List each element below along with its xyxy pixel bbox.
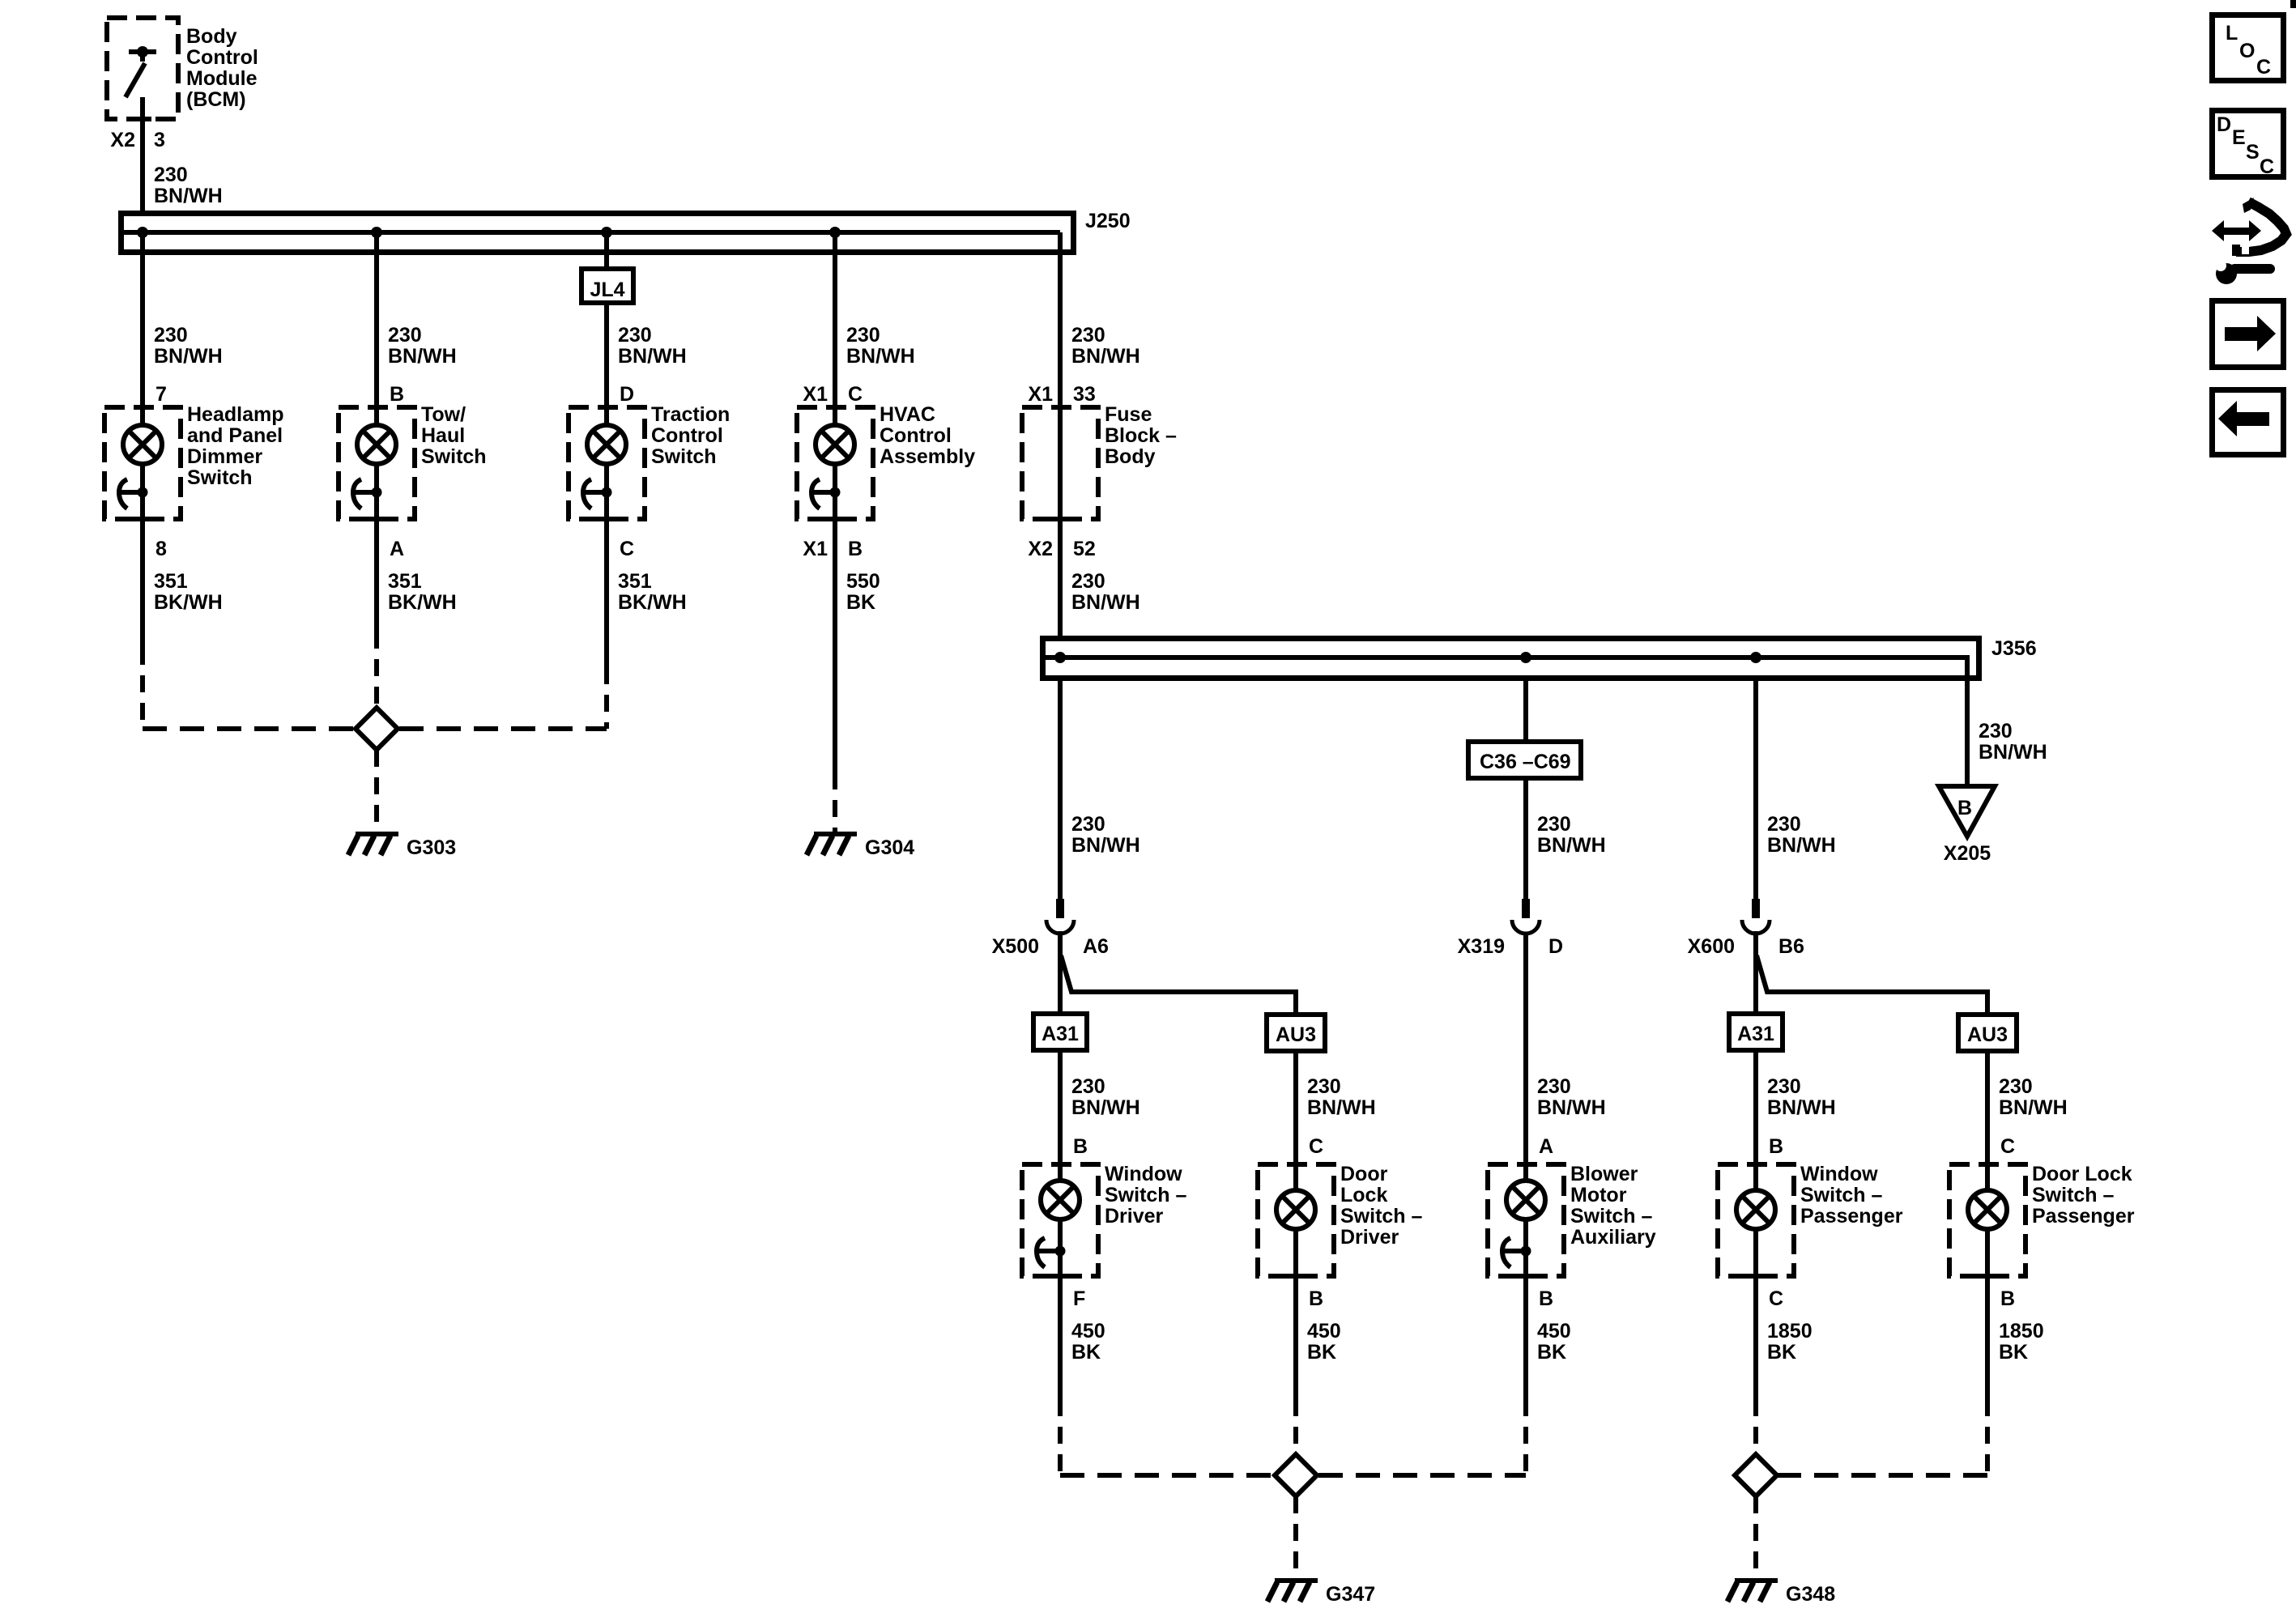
switch contact inside tow/haul switch bbox=[352, 479, 382, 509]
svg-text:B: B bbox=[1769, 1135, 1783, 1158]
pin X2 3 of BCM bbox=[110, 129, 165, 151]
svg-text:BN/WH: BN/WH bbox=[1999, 1096, 2068, 1119]
switch contact inside HVAC control assembly bbox=[811, 479, 841, 509]
svg-text:X600: X600 bbox=[1688, 935, 1735, 958]
svg-text:BN/WH: BN/WH bbox=[1307, 1096, 1376, 1119]
indicator lamp inside tow/haul switch bbox=[357, 407, 396, 519]
switch contact inside S1 headlamp dimmer bbox=[118, 479, 148, 509]
splice diamond above G347 bbox=[1275, 1454, 1317, 1496]
pin X1 C of HVAC control assembly bbox=[803, 383, 863, 406]
svg-text:A: A bbox=[1539, 1135, 1553, 1158]
dashed wire joining passenger switches to G348 diamond bbox=[1777, 1473, 1987, 1478]
switch contact inside traction control switch bbox=[582, 479, 612, 509]
pin A of tow/haul switch bbox=[390, 538, 404, 560]
svg-text:S: S bbox=[2246, 141, 2260, 164]
pin 7 of S1 headlamp dimmer bbox=[155, 383, 167, 406]
svg-text:230: 230 bbox=[1537, 1075, 1571, 1098]
svg-text:BN/WH: BN/WH bbox=[1071, 1096, 1140, 1119]
connector code AU3 box (passenger) bbox=[1958, 1015, 2017, 1051]
svg-text:230: 230 bbox=[1307, 1075, 1341, 1098]
svg-text:Blower: Blower bbox=[1570, 1163, 1638, 1185]
switch contact inside window switch driver bbox=[1036, 1238, 1066, 1267]
pin B of window switch passenger bbox=[1769, 1135, 1783, 1158]
wire from X500 to connector code A31 bbox=[1058, 931, 1063, 1014]
pin C of traction control switch bbox=[620, 538, 634, 560]
svg-text:33: 33 bbox=[1073, 383, 1096, 406]
component window switch passenger dashed box bbox=[1718, 1164, 1794, 1276]
svg-text:C: C bbox=[2260, 155, 2274, 178]
dashed wire from diamond to ground G303 bbox=[374, 750, 379, 834]
svg-text:Tow/: Tow/ bbox=[421, 403, 466, 426]
page corner mark bbox=[2290, 0, 2296, 8]
svg-text:C: C bbox=[620, 538, 634, 560]
junction dot on J356 at window switch driver drop bbox=[1054, 652, 1066, 663]
svg-text:F: F bbox=[1073, 1287, 1085, 1310]
dashed wire joining driver switches to G347 diamond bbox=[1060, 1473, 1526, 1478]
svg-text:52: 52 bbox=[1073, 538, 1096, 560]
svg-text:Switch: Switch bbox=[421, 445, 487, 468]
component name label window switch driver bbox=[1105, 1163, 1187, 1228]
connector range C36 - C69 box bbox=[1468, 742, 1581, 778]
svg-text:Switch –: Switch – bbox=[1800, 1184, 1883, 1206]
wire 230 BN/WH from J250 to tow/haul switch bbox=[374, 232, 379, 407]
LOC legend box icon bbox=[2213, 15, 2284, 81]
wire label 230 BN/WH (S1 headlamp dimmer drop) bbox=[154, 324, 223, 368]
junction dot on J356 at window switch passenger drop bbox=[1750, 652, 1761, 663]
svg-text:Lock: Lock bbox=[1340, 1184, 1387, 1206]
wire label 230 BN/WH (X500 drop) bbox=[1071, 813, 1140, 857]
svg-text:Door Lock: Door Lock bbox=[2032, 1163, 2132, 1185]
svg-text:230: 230 bbox=[1071, 813, 1105, 836]
wire label 450 BK (below door lock switch driver) bbox=[1307, 1320, 1341, 1364]
dashed wire from diamond to ground G348 bbox=[1753, 1496, 1758, 1581]
component door lock switch passenger dashed box bbox=[1949, 1164, 2026, 1276]
svg-text:E: E bbox=[2232, 126, 2246, 149]
pin X1 33 of fuse block - body bbox=[1028, 383, 1095, 406]
svg-text:G347: G347 bbox=[1326, 1583, 1375, 1606]
svg-text:A31: A31 bbox=[1737, 1023, 1774, 1045]
svg-text:C: C bbox=[848, 383, 863, 406]
svg-text:AU3: AU3 bbox=[1967, 1023, 2008, 1046]
svg-text:J356: J356 bbox=[1991, 637, 2037, 660]
wire label 230 BN/WH (above window switch passenger) bbox=[1767, 1075, 1836, 1119]
pin X2 52 of fuse block - body bbox=[1028, 538, 1095, 560]
svg-text:Traction: Traction bbox=[651, 403, 730, 426]
svg-text:Window: Window bbox=[1800, 1163, 1878, 1185]
component name label fuse block - body bbox=[1105, 403, 1177, 468]
J250 label bbox=[1085, 210, 1131, 232]
wire 230 BN/WH from J356 to C36-C69 bbox=[1523, 678, 1528, 742]
wire 550 BK below HVAC control assembly bbox=[833, 519, 837, 834]
svg-text:230: 230 bbox=[618, 324, 652, 347]
pin C of door lock switch passenger bbox=[2000, 1135, 2015, 1158]
wire label 230 BN/WH (tow/haul switch drop) bbox=[388, 324, 457, 368]
component name label blower motor switch auxiliary bbox=[1570, 1163, 1656, 1249]
wire 230 BN/WH to door lock switch driver bbox=[1293, 1051, 1298, 1164]
svg-text:AU3: AU3 bbox=[1276, 1023, 1316, 1046]
svg-text:BK: BK bbox=[1071, 1341, 1101, 1364]
pin F of window switch driver bbox=[1073, 1287, 1085, 1310]
pin D of traction control switch bbox=[620, 383, 634, 406]
svg-text:B: B bbox=[1073, 1135, 1088, 1158]
indicator lamp inside traction control switch bbox=[587, 407, 626, 519]
pin B of door lock switch passenger bbox=[2000, 1287, 2015, 1310]
junction dot on J356 at blower motor switch drop bbox=[1520, 652, 1531, 663]
svg-text:8: 8 bbox=[155, 538, 167, 560]
svg-text:X319: X319 bbox=[1458, 935, 1505, 958]
double arrow inside hand icon bbox=[2212, 220, 2261, 241]
svg-text:Driver: Driver bbox=[1340, 1226, 1399, 1249]
svg-text:BK: BK bbox=[1767, 1341, 1796, 1364]
wire 230 BN/WH from JL4 to traction control switch bbox=[604, 303, 609, 407]
connector code AU3 box (driver) bbox=[1267, 1015, 1325, 1051]
svg-text:Control: Control bbox=[186, 46, 258, 69]
svg-text:351: 351 bbox=[618, 570, 652, 593]
branch wire from X500 to connector code AU3 bbox=[1061, 955, 1296, 1015]
wire 450 BK below window switch driver bbox=[1058, 1276, 1063, 1475]
svg-text:230: 230 bbox=[1767, 1075, 1801, 1098]
svg-text:Door: Door bbox=[1340, 1163, 1388, 1185]
component fuse block - body dashed box bbox=[1022, 407, 1098, 519]
svg-text:D: D bbox=[620, 383, 634, 406]
svg-text:230: 230 bbox=[1071, 1075, 1105, 1098]
junction dot on J250 at traction drop bbox=[601, 227, 612, 238]
svg-text:BN/WH: BN/WH bbox=[1767, 1096, 1836, 1119]
pin A of blower motor switch auxiliary bbox=[1539, 1135, 1553, 1158]
X205 label bbox=[1944, 842, 1991, 865]
wire label 230 BN/WH (above blower motor switch) bbox=[1537, 1075, 1606, 1119]
svg-text:C: C bbox=[1769, 1287, 1783, 1310]
splice diamond above G348 bbox=[1735, 1454, 1777, 1496]
svg-text:230: 230 bbox=[1979, 720, 2013, 743]
svg-text:BK/WH: BK/WH bbox=[388, 591, 457, 614]
svg-text:A31: A31 bbox=[1042, 1023, 1079, 1045]
splice pack J250 bus bbox=[121, 214, 1074, 253]
svg-text:Auxiliary: Auxiliary bbox=[1570, 1226, 1656, 1249]
wrench icon bbox=[2210, 257, 2275, 284]
svg-text:Switch –: Switch – bbox=[2032, 1184, 2115, 1206]
junction dot on J250 at HVAC drop bbox=[829, 227, 841, 238]
wire 1850 BK below window switch passenger bbox=[1753, 1276, 1758, 1453]
wire label 351 BK/WH (below S1 headlamp dimmer) bbox=[154, 570, 223, 614]
svg-text:Switch –: Switch – bbox=[1340, 1205, 1423, 1228]
wire label 450 BK (below window switch driver) bbox=[1071, 1320, 1105, 1364]
wire 351 BK/WH below traction control switch bbox=[604, 519, 609, 729]
component S1 headlamp dimmer dashed box bbox=[104, 407, 181, 519]
indicator lamp inside HVAC control assembly bbox=[816, 407, 854, 519]
wire label 230 BN/WH (X600 drop) bbox=[1767, 813, 1836, 857]
svg-text:Switch: Switch bbox=[651, 445, 717, 468]
wire 1850 BK below door lock switch passenger bbox=[1985, 1276, 1990, 1475]
inline connector X600 pin B6 bbox=[1688, 899, 1804, 958]
svg-text:Dimmer: Dimmer bbox=[187, 445, 262, 468]
ground G303 bbox=[348, 834, 456, 859]
component name label door lock switch driver bbox=[1340, 1163, 1423, 1249]
pin B of window switch driver bbox=[1073, 1135, 1088, 1158]
diagnostic hand icon outline bbox=[2232, 198, 2286, 256]
svg-text:BN/WH: BN/WH bbox=[1537, 1096, 1606, 1119]
component name label door lock switch passenger bbox=[2032, 1163, 2135, 1228]
svg-text:and Panel: and Panel bbox=[187, 424, 283, 447]
svg-text:Module: Module bbox=[186, 67, 258, 90]
svg-text:BK: BK bbox=[1537, 1341, 1566, 1364]
svg-text:X1: X1 bbox=[803, 383, 828, 406]
svg-text:Switch –: Switch – bbox=[1570, 1205, 1653, 1228]
wire 230 BN/WH to window switch passenger bbox=[1753, 1050, 1758, 1164]
svg-text:BN/WH: BN/WH bbox=[388, 345, 457, 368]
component name label window switch passenger bbox=[1800, 1163, 1903, 1228]
svg-text:A: A bbox=[390, 538, 404, 560]
svg-text:BN/WH: BN/WH bbox=[1767, 834, 1836, 857]
svg-text:A6: A6 bbox=[1083, 935, 1109, 958]
svg-text:G348: G348 bbox=[1786, 1583, 1835, 1606]
component HVAC control assembly dashed box bbox=[797, 407, 873, 519]
option code JL4 box bbox=[581, 269, 633, 303]
svg-text:Fuse: Fuse bbox=[1105, 403, 1152, 426]
connector X205 triangle bbox=[1939, 786, 1995, 836]
svg-text:1850: 1850 bbox=[1767, 1320, 1813, 1343]
svg-text:BK/WH: BK/WH bbox=[618, 591, 687, 614]
svg-text:B6: B6 bbox=[1778, 935, 1804, 958]
svg-text:BN/WH: BN/WH bbox=[1979, 741, 2047, 764]
wire 230 BN/WH to blower motor switch auxiliary bbox=[1523, 935, 1528, 1164]
wire label 230 BN/WH (X205 drop) bbox=[1979, 720, 2047, 764]
svg-text:BN/WH: BN/WH bbox=[1071, 345, 1140, 368]
svg-text:O: O bbox=[2239, 40, 2255, 62]
svg-text:BN/WH: BN/WH bbox=[618, 345, 687, 368]
svg-text:Assembly: Assembly bbox=[880, 445, 975, 468]
wire label 230 BN/WH (X319 drop) bbox=[1537, 813, 1606, 857]
BCM name label bbox=[186, 25, 258, 111]
svg-text:B: B bbox=[2000, 1287, 2015, 1310]
indicator lamp inside S1 headlamp dimmer bbox=[123, 407, 162, 519]
svg-text:7: 7 bbox=[155, 383, 167, 406]
dashed wire from diamond to ground G347 bbox=[1293, 1496, 1298, 1581]
svg-text:L: L bbox=[2226, 22, 2238, 45]
svg-text:J250: J250 bbox=[1085, 210, 1131, 232]
J356 label bbox=[1991, 637, 2037, 660]
svg-text:BN/WH: BN/WH bbox=[1537, 834, 1606, 857]
svg-text:230: 230 bbox=[154, 324, 188, 347]
junction dot on J250 at headlamp drop bbox=[137, 227, 148, 238]
wire label 1850 BK (below window switch passenger) bbox=[1767, 1320, 1813, 1364]
wire 230 BN/WH from J250 to JL4 bbox=[604, 232, 609, 269]
svg-text:D: D bbox=[1548, 935, 1563, 958]
svg-text:550: 550 bbox=[846, 570, 880, 593]
svg-text:Body: Body bbox=[1105, 445, 1156, 468]
svg-text:C: C bbox=[2000, 1135, 2015, 1158]
svg-text:BK/WH: BK/WH bbox=[154, 591, 223, 614]
svg-text:230: 230 bbox=[1767, 813, 1801, 836]
indicator lamp inside window switch passenger bbox=[1736, 1164, 1775, 1276]
component blower motor switch auxiliary dashed box bbox=[1488, 1164, 1564, 1276]
svg-text:BK: BK bbox=[1999, 1341, 2028, 1364]
wire label 230 BN/WH (above door lock switch passenger) bbox=[1999, 1075, 2068, 1119]
component name label traction control switch bbox=[651, 403, 730, 468]
svg-text:230: 230 bbox=[154, 164, 188, 186]
wire 351 BK/WH below headlamp dimmer switch bbox=[140, 519, 145, 729]
component name label S1 headlamp dimmer bbox=[187, 403, 283, 489]
component tow/haul switch dashed box bbox=[339, 407, 415, 519]
svg-text:JL4: JL4 bbox=[590, 279, 624, 301]
svg-text:Switch –: Switch – bbox=[1105, 1184, 1187, 1206]
indicator lamp inside blower motor switch auxiliary bbox=[1506, 1164, 1545, 1276]
svg-text:X2: X2 bbox=[110, 129, 135, 151]
component door lock switch driver dashed box bbox=[1258, 1164, 1334, 1276]
svg-text:450: 450 bbox=[1071, 1320, 1105, 1343]
connector code A31 box (driver) bbox=[1033, 1014, 1087, 1050]
wire 351 BK/WH below tow/haul switch bbox=[374, 519, 379, 706]
svg-text:230: 230 bbox=[1537, 813, 1571, 836]
Body Control Module (BCM) dashed box bbox=[107, 18, 178, 119]
BCM internal switch symbol bbox=[126, 46, 156, 97]
svg-text:Driver: Driver bbox=[1105, 1205, 1164, 1228]
wire label 351 BK/WH (below traction control switch) bbox=[618, 570, 687, 614]
wire 450 BK below blower motor switch bbox=[1523, 1276, 1528, 1475]
svg-text:B: B bbox=[1957, 797, 1972, 819]
pin C of window switch passenger bbox=[1769, 1287, 1783, 1310]
branch wire from X600 to connector code AU3 passenger bbox=[1757, 955, 1987, 1015]
wire 230 BN/WH from J356 to X600 bbox=[1753, 678, 1758, 899]
svg-text:X2: X2 bbox=[1028, 538, 1053, 560]
svg-text:B: B bbox=[1539, 1287, 1553, 1310]
wire 230 BN/WH from BCM to J250 bbox=[140, 97, 145, 232]
svg-text:B: B bbox=[1309, 1287, 1323, 1310]
junction dot on J250 at tow/haul drop bbox=[371, 227, 382, 238]
svg-text:351: 351 bbox=[154, 570, 188, 593]
wire 230 BN/WH to door lock switch passenger bbox=[1985, 1051, 1990, 1164]
svg-text:Block –: Block – bbox=[1105, 424, 1177, 447]
svg-text:C: C bbox=[2256, 56, 2271, 79]
svg-text:Body: Body bbox=[186, 25, 237, 48]
splice diamond above G303 bbox=[356, 708, 398, 750]
DESC legend box icon bbox=[2213, 111, 2284, 179]
component window switch driver dashed box bbox=[1022, 1164, 1098, 1276]
wire label 230 BN/WH (below fuse block - body) bbox=[1071, 570, 1140, 614]
wire label 230 BN/WH (above window switch driver) bbox=[1071, 1075, 1140, 1119]
wire 230 BN/WH to window switch driver bbox=[1058, 1050, 1063, 1164]
ground G348 bbox=[1727, 1581, 1835, 1606]
svg-text:BN/WH: BN/WH bbox=[1071, 591, 1140, 614]
pin B of blower motor switch auxiliary bbox=[1539, 1287, 1553, 1310]
wire label 351 BK/WH (below tow/haul switch) bbox=[388, 570, 457, 614]
svg-text:450: 450 bbox=[1537, 1320, 1571, 1343]
wire label 550 BK (below HVAC control assembly) bbox=[846, 570, 880, 614]
svg-text:Switch: Switch bbox=[187, 466, 253, 489]
svg-text:Control: Control bbox=[651, 424, 723, 447]
svg-text:230: 230 bbox=[388, 324, 422, 347]
svg-text:Motor: Motor bbox=[1570, 1184, 1627, 1206]
svg-text:230: 230 bbox=[846, 324, 880, 347]
svg-text:450: 450 bbox=[1307, 1320, 1341, 1343]
svg-text:G304: G304 bbox=[865, 836, 914, 859]
pin B of tow/haul switch bbox=[390, 383, 404, 406]
splice pack J356 bus bbox=[1043, 639, 1979, 787]
svg-text:BN/WH: BN/WH bbox=[154, 345, 223, 368]
svg-text:HVAC: HVAC bbox=[880, 403, 935, 426]
wire label 450 BK (below blower motor switch auxiliary) bbox=[1537, 1320, 1571, 1364]
wire 230 BN/WH from J250 to HVAC control assembly bbox=[833, 232, 837, 407]
svg-text:Passenger: Passenger bbox=[2032, 1205, 2135, 1228]
svg-text:X205: X205 bbox=[1944, 842, 1991, 865]
wire 230 BN/WH from fuse block to J356 bbox=[1058, 519, 1063, 657]
switch contact inside blower motor switch auxiliary bbox=[1502, 1238, 1531, 1267]
svg-text:230: 230 bbox=[1999, 1075, 2033, 1098]
ground G304 bbox=[807, 834, 914, 859]
wire 230 BN/WH from J250 to S1 headlamp dimmer bbox=[140, 232, 145, 407]
svg-text:3: 3 bbox=[154, 129, 165, 151]
wire label 230 BN/WH (BCM drop) bbox=[154, 164, 223, 207]
pin B of door lock switch driver bbox=[1309, 1287, 1323, 1310]
wire 450 BK below door lock switch driver bbox=[1293, 1276, 1298, 1453]
forward arrow navigation box bbox=[2213, 301, 2284, 368]
svg-text:230: 230 bbox=[1071, 570, 1105, 593]
inline connector X319 pin D bbox=[1458, 899, 1563, 958]
inline connector X500 pin A6 bbox=[992, 899, 1109, 958]
svg-text:G303: G303 bbox=[407, 836, 456, 859]
svg-text:351: 351 bbox=[388, 570, 422, 593]
indicator lamp inside door lock switch driver bbox=[1276, 1164, 1315, 1276]
wire 230 BN/WH from J250 right end down to fuse block bbox=[1058, 232, 1063, 407]
svg-text:X500: X500 bbox=[992, 935, 1039, 958]
wire label 230 BN/WH (HVAC control assembly drop) bbox=[846, 324, 915, 368]
ground G347 bbox=[1267, 1581, 1375, 1606]
wire 230 BN/WH from C36-C69 to X319 bbox=[1523, 778, 1528, 899]
wire 230 BN/WH from J356 to X500 bbox=[1058, 678, 1063, 899]
pin X1 B of HVAC control assembly bbox=[803, 538, 863, 560]
wire label 230 BN/WH (fuse block - body drop) bbox=[1071, 324, 1140, 368]
indicator lamp inside window switch driver bbox=[1041, 1164, 1080, 1276]
svg-text:BK: BK bbox=[846, 591, 875, 614]
svg-text:C: C bbox=[1309, 1135, 1323, 1158]
svg-text:Haul: Haul bbox=[421, 424, 465, 447]
pin 8 of S1 headlamp dimmer bbox=[155, 538, 167, 560]
wire label 1850 BK (below door lock switch passenger) bbox=[1999, 1320, 2044, 1364]
back arrow navigation box bbox=[2213, 390, 2284, 455]
connector code A31 box (passenger) bbox=[1729, 1014, 1783, 1050]
wire label 230 BN/WH (above door lock switch driver) bbox=[1307, 1075, 1376, 1119]
wire through fuse block - body bbox=[1058, 407, 1063, 519]
svg-text:D: D bbox=[2217, 113, 2231, 136]
svg-text:1850: 1850 bbox=[1999, 1320, 2044, 1343]
svg-text:BN/WH: BN/WH bbox=[154, 185, 223, 207]
dashed wire joining grounds to splice diamond at G303 net bbox=[143, 726, 607, 731]
svg-text:B: B bbox=[848, 538, 863, 560]
svg-text:Headlamp: Headlamp bbox=[187, 403, 283, 426]
svg-text:Passenger: Passenger bbox=[1800, 1205, 1903, 1228]
wire from X600 to connector code A31 passenger bbox=[1753, 931, 1758, 1014]
svg-text:Control: Control bbox=[880, 424, 952, 447]
component name label HVAC control assembly bbox=[880, 403, 975, 468]
svg-text:(BCM): (BCM) bbox=[186, 88, 246, 111]
svg-text:C36 –C69: C36 –C69 bbox=[1480, 751, 1571, 773]
svg-text:X1: X1 bbox=[803, 538, 828, 560]
indicator lamp inside door lock switch passenger bbox=[1968, 1164, 2007, 1276]
svg-text:X1: X1 bbox=[1028, 383, 1053, 406]
wire label 230 BN/WH (traction control switch drop) bbox=[618, 324, 687, 368]
svg-text:BK: BK bbox=[1307, 1341, 1336, 1364]
svg-text:230: 230 bbox=[1071, 324, 1105, 347]
pin C of door lock switch driver bbox=[1309, 1135, 1323, 1158]
component traction control switch dashed box bbox=[569, 407, 645, 519]
svg-text:B: B bbox=[390, 383, 404, 406]
svg-text:BN/WH: BN/WH bbox=[846, 345, 915, 368]
svg-text:BN/WH: BN/WH bbox=[1071, 834, 1140, 857]
svg-text:Window: Window bbox=[1105, 1163, 1182, 1185]
component name label tow/haul switch bbox=[421, 403, 487, 468]
